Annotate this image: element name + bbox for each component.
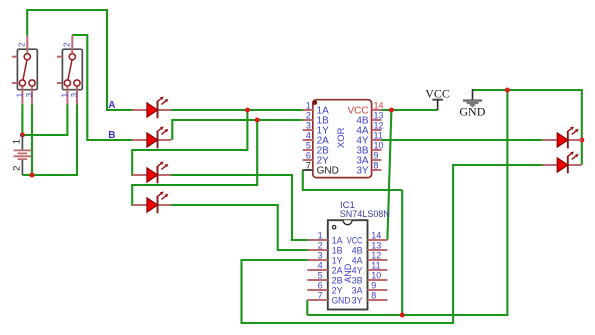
wire net A: switch S1 pin2 up, across top, down to LED1 anode (27, 10, 133, 110)
svg-text:B: B (108, 130, 115, 141)
svg-text:3: 3 (25, 92, 34, 97)
IC1 pin 9 (3A) (352, 281, 388, 296)
battery pin 2 label (12, 166, 23, 171)
svg-text:GND: GND (332, 295, 351, 305)
switch S1 pin 1 (15, 86, 24, 104)
battery pin 1 label (12, 139, 23, 144)
junction net A branch (245, 108, 250, 113)
switch S2 pin 1 (60, 86, 69, 104)
svg-text:1: 1 (15, 92, 24, 97)
wire net A branch: junction down, left, down to LED3 anode (132, 110, 247, 175)
IC2 XOR pin 13 (4B) (356, 111, 383, 127)
IC1 pin 7 (GND) (307, 291, 350, 306)
IC2 XOR pin 6 (2Y) (303, 151, 330, 167)
svg-text:2A: 2A (332, 265, 343, 275)
IC2 XOR pin 7 (GND) (303, 161, 339, 177)
wire GND: IC2 XOR pin 7 down and right (303, 170, 402, 190)
svg-text:3: 3 (306, 121, 311, 131)
IC1 pin 3 (1Y) (307, 251, 342, 266)
IC2 XOR pin 2 (1B) (303, 111, 330, 127)
node A label (108, 100, 115, 111)
junction battery plus / S1 pin1 / S2 pin1 (20, 133, 25, 138)
wire VCC: junction down to IC1 pin 14 (slanted) (387, 110, 391, 240)
junction VCC branch at XOR pin 14 (389, 108, 394, 113)
wire battery minus: battery pin 2 right and up to switch S2 pin3 (22, 104, 77, 175)
svg-text:SN74LS08N: SN74LS08N (340, 209, 390, 219)
svg-text:1: 1 (306, 101, 311, 111)
IC2 XOR pin 4 (2A) (303, 131, 330, 147)
svg-text:3Y: 3Y (352, 295, 363, 305)
junction LED5 cathode / GND rail (579, 138, 584, 143)
svg-text:2: 2 (306, 111, 311, 121)
switch S1 pin 2 (18, 35, 28, 53)
wire LED4 cathode right, down, to IC1 pin 2 (1B) (170, 205, 308, 250)
svg-text:2: 2 (63, 42, 72, 47)
IC1 pin 10 (3B) (352, 271, 388, 286)
LED LED6 (AND output) (542, 152, 581, 174)
wire GND: bottom bus right and up to top GND rail (307, 90, 507, 315)
switch S1 pin 3 (25, 86, 34, 104)
svg-text:8: 8 (371, 291, 376, 301)
svg-text:6: 6 (306, 151, 311, 161)
junction battery minus / S1 pin3 (30, 173, 35, 178)
svg-text:11: 11 (371, 261, 380, 271)
svg-text:4: 4 (306, 131, 311, 141)
IC2 XOR pin 5 (2B) (303, 141, 330, 157)
battery leads (21, 135, 23, 175)
svg-text:14: 14 (371, 231, 381, 241)
svg-text:12: 12 (371, 251, 381, 261)
svg-text:1: 1 (318, 231, 323, 241)
svg-text:3: 3 (70, 92, 79, 97)
IC1 pin 11 (4Y) (352, 261, 388, 276)
svg-text:1A: 1A (332, 235, 343, 245)
wire net B: LED2 cathode up to IC2 XOR pin 2 (1B) (172, 120, 303, 140)
IC1 value label SN74LS08N (340, 209, 390, 219)
svg-text:13: 13 (374, 111, 384, 121)
svg-text:11: 11 (374, 131, 383, 141)
IC2 XOR pin 14 (VCC) (347, 101, 383, 117)
IC1 pin 5 (2B) (307, 271, 342, 286)
svg-text:2Y: 2Y (332, 285, 343, 295)
svg-text:6: 6 (318, 281, 323, 291)
LED LED4 (132, 192, 171, 214)
IC2 XOR rotated gate-type label (336, 127, 347, 148)
IC1 pin 2 (1B) (307, 241, 342, 256)
svg-text:7: 7 (306, 161, 311, 171)
svg-text:4A: 4A (352, 255, 363, 265)
svg-text:3B: 3B (352, 275, 363, 285)
svg-text:VCC: VCC (425, 86, 450, 100)
svg-text:3A: 3A (352, 285, 363, 295)
wire IC2 XOR pin 11 (4Y) to LED5 anode (381, 139, 543, 141)
LED LED1 (net A indicator) (132, 97, 171, 119)
wire GND: IC1 pin 7 down to bottom bus (306, 300, 308, 315)
wire battery plus: switch S1 pin1 down to battery pin 1 (21, 104, 23, 133)
battery plates (14, 150, 32, 159)
svg-text:8: 8 (374, 161, 379, 171)
svg-text:3: 3 (318, 251, 323, 261)
wire GND: top rail from GND symbol right, down to LED cathodes (473, 90, 582, 165)
IC1 pin 6 (2Y) (307, 281, 342, 296)
IC1 pin 1 (1A) (307, 231, 342, 246)
svg-text:3Y: 3Y (356, 166, 369, 177)
svg-text:5: 5 (306, 141, 311, 151)
IC1 pin 13 (4B) (352, 241, 388, 256)
switch S2 body (57, 49, 83, 89)
wire battery minus: switch S1 pin3 down to junction (31, 104, 33, 175)
IC1 pin 12 (4A) (352, 251, 388, 266)
IC2 XOR pin 11 (4Y) (356, 131, 382, 147)
wire net A: LED1 cathode to IC2 XOR pin 1 (1A) (171, 109, 303, 111)
ground symbol GND (459, 89, 485, 118)
VCC power symbol (425, 86, 450, 110)
svg-text:9: 9 (374, 151, 379, 161)
IC2 XOR pin 8 (3Y) (356, 161, 381, 177)
LED LED5 (XOR output) (542, 127, 581, 149)
wire battery plus: junction right and up to switch S2 pin1 (22, 104, 67, 135)
svg-text:A: A (108, 100, 115, 111)
svg-text:1: 1 (60, 92, 69, 97)
svg-text:GND: GND (317, 166, 339, 177)
IC1 pin 14 (VCC) (347, 231, 388, 246)
svg-text:1B: 1B (332, 245, 343, 255)
svg-text:1: 1 (12, 139, 23, 144)
svg-text:13: 13 (371, 241, 381, 251)
svg-text:2: 2 (18, 42, 27, 47)
junction GND bottom bus (400, 313, 405, 318)
IC2 XOR pin 12 (4A) (356, 121, 383, 137)
IC2 XOR pin 9 (3A) (356, 151, 381, 167)
svg-text:2: 2 (12, 166, 23, 171)
IC2 XOR pin 10 (3B) (356, 141, 383, 157)
switch S1 body (12, 49, 38, 89)
IC1 rotated gate-type label (343, 263, 353, 283)
wire IC1 pin 3 (1Y) left, down, right, up to LED6 anode (242, 165, 543, 323)
LED LED2 (net B indicator) (132, 127, 171, 149)
switch S2 pin 3 (70, 86, 79, 104)
junction GND top rail (505, 88, 510, 93)
svg-text:9: 9 (371, 281, 376, 291)
svg-text:4: 4 (318, 261, 323, 271)
svg-text:10: 10 (371, 271, 381, 281)
junction net B branch (255, 118, 260, 123)
svg-text:1Y: 1Y (332, 255, 343, 265)
IC2 XOR pin 1 (1A) (303, 101, 330, 117)
wire GND: vertical down to bottom bus junction (401, 190, 403, 315)
svg-text:2: 2 (318, 241, 323, 251)
svg-text:7: 7 (318, 291, 323, 301)
op IC2 XOR gate body (313, 100, 372, 178)
svg-text:XOR: XOR (336, 127, 347, 148)
wire VCC: IC2 XOR pin 14 to VCC symbol (381, 109, 437, 111)
svg-text:10: 10 (374, 141, 384, 151)
svg-text:4Y: 4Y (352, 265, 363, 275)
svg-text:12: 12 (374, 121, 384, 131)
IC1 pin 4 (2A) (307, 261, 342, 276)
wire net B: switch S2 pin2 up, right, down to LED2 anode (72, 35, 133, 140)
wire LED3 cathode right, down, to IC1 pin 1 (1A) (168, 175, 308, 240)
svg-text:2B: 2B (332, 275, 343, 285)
svg-text:GND: GND (459, 104, 485, 118)
svg-text:4B: 4B (352, 245, 363, 255)
svg-text:14: 14 (374, 101, 384, 111)
svg-text:5: 5 (318, 271, 323, 281)
IC2 XOR pin 3 (1Y) (303, 121, 330, 137)
switch S2 pin 2 (63, 35, 73, 53)
wire net B branch: junction down, left, down to LED4 anode (132, 120, 257, 205)
IC1 pin 8 (3Y) (352, 291, 388, 306)
IC1 AND gate body SN74LS08N (328, 220, 368, 309)
IC1 reference designator label (340, 200, 355, 211)
LED LED3 (132, 162, 171, 184)
svg-text:VCC: VCC (347, 235, 363, 245)
node B label (108, 130, 115, 141)
